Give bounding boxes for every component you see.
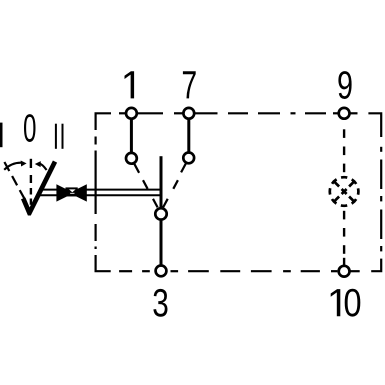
- terminal 7: [183, 108, 194, 119]
- terminal 1: [126, 108, 137, 119]
- detent coupling bowtie symbol: [56, 184, 86, 201]
- linkage double line lower: [38, 194, 163, 196]
- switch housing box left edge: [94, 128, 96, 256]
- switch housing box right edge: [380, 127, 382, 262]
- moving contact pivot: [155, 208, 166, 219]
- terminal 3: [156, 266, 167, 277]
- fixed contact of terminal 1: [126, 153, 137, 164]
- label terminal 9: [338, 71, 351, 99]
- dashed lamp wire to terminal 10: [343, 211, 345, 265]
- lamp L (illumination) dashed circle: [330, 177, 359, 206]
- position label I: [0, 123, 3, 148]
- terminal 9: [339, 108, 350, 119]
- position label 0: [24, 114, 36, 142]
- switch housing box bottom edge: [96, 256, 382, 271]
- label terminal 10 digit 1: [331, 289, 341, 316]
- dashed contact path from contact 1 to common (position I): [134, 164, 157, 208]
- label terminal 7: [183, 71, 196, 98]
- dashed contact path from contact 7 to common (position II): [163, 163, 186, 207]
- dashed travel line to position I: [4, 162, 24, 199]
- switch housing box (dash-dot enclosure) top edge: [96, 113, 382, 128]
- moving contact arm wire: [160, 156, 163, 208]
- label terminal 1: [124, 71, 134, 98]
- terminal 10: [339, 266, 350, 277]
- dashed lamp supply wire from terminal 9: [343, 129, 345, 172]
- wire terminal 1 to fixed contact: [130, 119, 133, 153]
- position label II: [55, 124, 57, 149]
- return arrow from position I: [4, 163, 21, 170]
- wire moving contact to terminal 3: [160, 220, 163, 266]
- return arrow from position II: [39, 164, 46, 170]
- actuator lever (checkmark): [21, 161, 57, 216]
- dashed centre position line 0: [30, 159, 32, 205]
- label terminal 10 digit 0: [345, 289, 361, 317]
- fixed contact of terminal 7: [183, 153, 194, 164]
- wire terminal 7 to fixed contact: [187, 119, 190, 153]
- lamp X cross dashes: [334, 182, 353, 201]
- linkage double line upper: [41, 189, 163, 191]
- label terminal 3: [153, 289, 167, 317]
